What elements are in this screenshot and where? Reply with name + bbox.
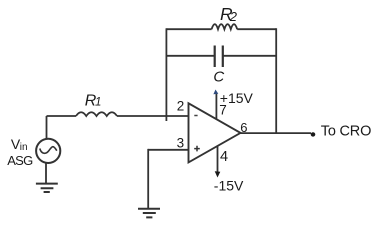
svg-text:To CRO: To CRO [321,124,371,140]
svg-text:4: 4 [220,149,228,165]
svg-text:C: C [213,68,224,85]
svg-text:+15V: +15V [220,90,254,106]
svg-text:6: 6 [240,120,247,135]
svg-text:in: in [20,142,28,153]
svg-text:-15V: -15V [214,178,244,194]
svg-text:2: 2 [229,9,238,24]
svg-text:ASG: ASG [7,153,33,168]
svg-text:1: 1 [95,97,101,109]
svg-text:3: 3 [177,136,185,151]
svg-text:2: 2 [177,98,185,113]
